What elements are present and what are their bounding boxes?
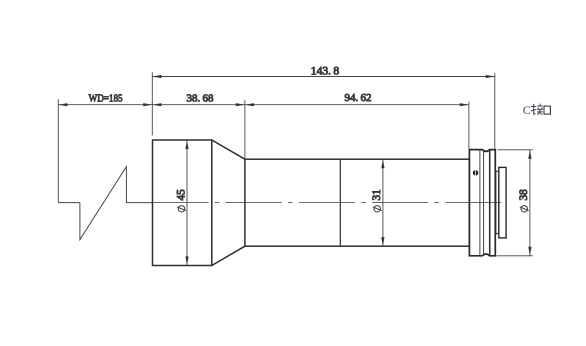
svg-text:31: 31	[371, 189, 383, 200]
value label 31 (rotated)	[371, 189, 383, 200]
dimension line 38.68 (front cell length)	[152, 103, 245, 106]
CJK glyph 接	[531, 104, 543, 115]
diameter symbol for phi31	[373, 206, 382, 212]
svg-text:94. 62: 94. 62	[345, 92, 372, 104]
svg-text:143. 8: 143. 8	[311, 64, 340, 77]
extension line at flange rear face (right end of 143.8)	[494, 73, 496, 148]
barrel joint line	[339, 159, 341, 246]
extension line at object plane (left end of WD)	[57, 99, 59, 202]
label "C接口" (C-mount interface)	[523, 103, 551, 117]
thread relief neck	[496, 171, 499, 233]
dimension line 143.8 (overall length)	[152, 75, 494, 78]
flange step line 3 (groove shoulder)	[489, 151, 491, 255]
C-mount thread ring	[499, 167, 506, 238]
dimension line phi31	[381, 159, 384, 246]
svg-text:WD=185: WD=185	[89, 93, 123, 105]
dimension line phi45	[185, 140, 188, 266]
dimension line 94.62 (barrel length)	[245, 103, 469, 106]
extension line phi38 top	[498, 149, 533, 151]
break (zigzag) symbol	[80, 167, 153, 240]
extension line at cone/barrel junction	[244, 100, 246, 159]
object-distance line (left of break)	[58, 202, 80, 204]
flange step line 2	[483, 150, 485, 256]
value label 45 (rotated)	[175, 189, 187, 201]
front cell (phi45 cylinder)	[153, 140, 212, 266]
extension line at lens front face (left end of 143.8)	[151, 72, 153, 135]
cone transition upper edge	[212, 140, 245, 159]
extension line phi38 bottom	[497, 255, 533, 257]
diameter symbol for phi38	[520, 206, 529, 212]
dimension line phi38	[528, 150, 531, 256]
cone transition lower edge	[212, 246, 245, 265]
svg-text:45: 45	[175, 189, 187, 201]
extension line at flange front face	[468, 102, 470, 150]
flange step line 1	[479, 150, 481, 256]
main barrel (phi31 tube)	[245, 159, 469, 246]
optical centre axis (chain line)	[153, 202, 507, 204]
C-mount flange body (phi38)	[469, 150, 495, 256]
svg-text:C: C	[523, 103, 531, 117]
CJK glyph 口	[544, 106, 550, 114]
svg-text:38. 68: 38. 68	[187, 93, 214, 105]
value label 38 (rotated)	[518, 189, 530, 201]
diameter symbol for phi45	[177, 206, 186, 212]
set screw	[473, 170, 478, 176]
svg-text:38: 38	[518, 189, 530, 201]
dimension line WD=185 (working distance)	[58, 103, 152, 106]
